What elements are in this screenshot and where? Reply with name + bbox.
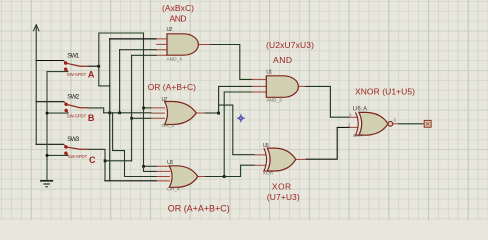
junction: net A to U7.in1: [142, 107, 145, 110]
XOR gate U5: [254, 148, 306, 171]
wire: net B to U2 pin 3: [120, 49, 157, 51]
wire: net C branch: [105, 160, 132, 162]
svg-text:OR_4: OR_4: [167, 187, 180, 193]
XNOR gate U6: [349, 112, 399, 135]
wire: net C to U7 pin 3: [132, 117, 151, 119]
junction: U7 output: [217, 112, 220, 115]
net B: SW2 output: [88, 108, 103, 113]
svg-text:U5: U5: [263, 143, 269, 149]
wire: net A to U7 pin 1: [144, 107, 152, 109]
svg-text:SW1: SW1: [67, 53, 79, 60]
wire: U2 output to U1 pin 1: [210, 45, 252, 80]
wire: U7 output: [205, 112, 219, 114]
wire: U6 output to terminal: [399, 123, 423, 125]
wire: net C vertical up: [131, 55, 133, 161]
wire: net C to U3 pin 4: [105, 180, 157, 182]
svg-text:AND_4: AND_4: [167, 57, 183, 63]
wire: U3 net up to U1 pin 3: [224, 92, 251, 177]
svg-text:AND: AND: [170, 13, 187, 23]
svg-text:A: A: [88, 70, 95, 80]
wire: U1 output to U6 pin 1: [306, 86, 350, 117]
origin marker: [237, 114, 245, 122]
wire: U5 output to U6 pin 2: [306, 127, 349, 159]
junction: net B stray: [108, 112, 111, 115]
wire: net A step to U3 pin 2: [144, 166, 157, 171]
junction: U3 output: [223, 175, 226, 178]
wire: SW2 pole stub: [36, 101, 64, 103]
svg-text:C: C: [89, 155, 96, 165]
switch SW3: [64, 144, 89, 155]
wire: U7 net up to U1 pin 2: [219, 86, 252, 113]
wire: SW3 lower throw to chain: [47, 154, 68, 156]
svg-text:XOR: XOR: [272, 182, 291, 192]
svg-text:B: B: [88, 113, 95, 123]
svg-text:(U2xU7xU3): (U2xU7xU3): [266, 40, 314, 50]
svg-text:U7: U7: [162, 97, 168, 103]
junction: chain SW3: [46, 154, 49, 157]
svg-text:OR (A+B+C): OR (A+B+C): [148, 82, 197, 92]
svg-text:XNOR (U1+U5): XNOR (U1+U5): [355, 86, 415, 96]
switch SW2: [64, 102, 89, 113]
svg-text:U2: U2: [167, 27, 173, 33]
wire: net A up from junction: [99, 33, 144, 66]
net A: SW1 output to junction: [88, 65, 99, 67]
wire: junction cluster down to U3 pin 4 line: [109, 86, 111, 181]
svg-text:SW-SPDT: SW-SPDT: [67, 113, 87, 118]
svg-text:AND: AND: [273, 55, 292, 65]
junction: net A at U3: [142, 165, 145, 168]
svg-text:SW-SPDT: SW-SPDT: [67, 72, 87, 77]
svg-text:XOR: XOR: [263, 171, 274, 177]
wire: SW1 lower throw to chain: [47, 71, 68, 73]
output terminal: [422, 120, 431, 127]
power rail arrow marker: [33, 25, 39, 31]
wire: net A long vertical: [143, 33, 145, 166]
svg-text:AND_3: AND_3: [266, 97, 282, 103]
svg-text:OR (A+A+B+C): OR (A+A+B+C): [168, 203, 230, 213]
wire: SW2 lower throw to chain: [47, 112, 68, 114]
AND gate U2: [156, 34, 210, 55]
ground: [41, 181, 52, 187]
svg-text:U6:A: U6:A: [353, 106, 368, 112]
wire: net B vertical: [119, 50, 121, 113]
wire: net A to U2 pin 1: [110, 38, 157, 40]
svg-text:U1: U1: [266, 70, 272, 76]
AND gate U1: [252, 76, 306, 98]
wire: SW3 pole stub: [36, 143, 63, 145]
wire: SW1 pole stub: [36, 60, 63, 62]
OR gate U7: [151, 102, 205, 125]
junction: net B at x120: [118, 112, 121, 115]
wire: U7 net jog to U5 pin 1: [219, 105, 255, 155]
wire: net C to U2 pin 4: [132, 54, 157, 56]
OR gate U3: [157, 166, 205, 188]
wire: net B to U7 pin 2: [104, 112, 151, 114]
net C: SW3 output: [88, 149, 105, 181]
wire: left bus vertical: [35, 29, 37, 144]
svg-text:(AxBxC): (AxBxC): [162, 3, 194, 13]
svg-text:SW-SPDT: SW-SPDT: [68, 154, 88, 159]
svg-text:OR_3: OR_3: [162, 123, 175, 129]
switch SW1: [63, 61, 88, 72]
svg-text:(U7+U3): (U7+U3): [267, 192, 300, 202]
wire: U3 output: [205, 176, 224, 178]
wire: net A down from junction: [99, 39, 110, 86]
svg-text:U3: U3: [167, 160, 173, 166]
wire: jogged feed to U3 pin 3: [113, 113, 157, 177]
wire: net A to U3 pin 1: [144, 165, 157, 167]
wire: U3 net to U5 pin 2: [224, 165, 254, 176]
junction: chain SW2: [46, 112, 49, 115]
svg-text:SW2: SW2: [67, 94, 79, 101]
junction: net A at SW1: [97, 65, 100, 68]
svg-text:SW3: SW3: [67, 136, 79, 143]
svg-text:4077: 4077: [353, 133, 364, 139]
junction: net C at U7: [130, 117, 133, 120]
junction: net C: [104, 160, 107, 163]
wire: throw-chain vertical to ground: [46, 72, 48, 181]
